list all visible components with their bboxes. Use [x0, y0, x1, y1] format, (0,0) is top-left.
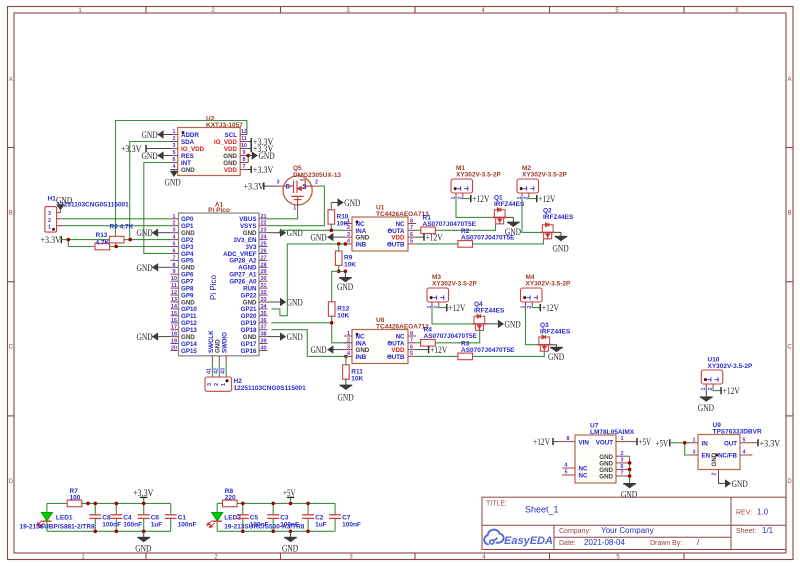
svg-text:A: A [9, 77, 13, 83]
connector M2 XY302V-3.5-2P [517, 165, 568, 200]
svg-text:GP22: GP22 [241, 292, 257, 299]
Pi Pico pin numbers [171, 214, 267, 352]
svg-text:5: 5 [173, 150, 176, 156]
svg-text:Your Company: Your Company [601, 526, 654, 535]
svg-text:GND: GND [344, 199, 360, 209]
svg-text:GND: GND [56, 197, 72, 207]
wire M4.1 to Q3 drain [526, 306, 538, 345]
svg-text:+3.3V: +3.3V [253, 166, 274, 176]
GND below U7 [623, 484, 636, 489]
GND flag at H1 pin3 [56, 197, 72, 213]
svg-text:B: B [9, 211, 13, 217]
svg-text:R9: R9 [344, 255, 353, 262]
svg-text:4.7K: 4.7K [96, 239, 110, 246]
svg-text:GND: GND [287, 299, 303, 309]
svg-text:22: 22 [261, 221, 267, 227]
H2 SWD header [205, 377, 306, 392]
svg-text:4: 4 [347, 239, 350, 245]
svg-text:GND: GND [505, 320, 521, 330]
svg-text:+12V: +12V [426, 234, 443, 244]
+3.3V flag at U2 VDD right [247, 145, 273, 155]
+12V flag at M4.2 [532, 304, 559, 314]
svg-text:2: 2 [621, 451, 624, 457]
svg-text:100nF: 100nF [280, 522, 299, 529]
svg-text:6: 6 [621, 464, 624, 470]
svg-text:GP14: GP14 [181, 341, 197, 348]
resistor R10 10K [328, 210, 335, 224]
svg-text:10K: 10K [337, 221, 349, 228]
svg-text:GND: GND [621, 490, 637, 500]
connector U10 XY302V-3.5-2P [701, 357, 753, 391]
capacitor C2 1uF [302, 515, 314, 519]
GND below rail 2 [282, 531, 298, 554]
svg-text:R6 4.7K: R6 4.7K [110, 224, 134, 231]
svg-text:INB: INB [356, 241, 367, 248]
+12V flag at U7 VIN [533, 438, 558, 448]
wire INA GP21 net [280, 229, 344, 231]
svg-text:4: 4 [565, 463, 568, 469]
wire +3.3V to R6/R13 [61, 240, 170, 247]
capacitor C1 100nF [165, 515, 177, 519]
connector M1 XY302V-3.5-2P [451, 165, 502, 200]
svg-text:13: 13 [171, 297, 177, 303]
svg-text:D: D [286, 184, 291, 191]
GND flag at pico pin23 [268, 229, 303, 240]
svg-text:VOUT: VOUT [596, 439, 613, 446]
GND flag at U9 GND pin2 [719, 477, 748, 490]
svg-text:XY302V-3.5-2P: XY302V-3.5-2P [526, 281, 571, 288]
svg-text:GND: GND [137, 333, 153, 343]
svg-text:8: 8 [173, 262, 176, 268]
svg-text:GND: GND [698, 404, 714, 414]
svg-text:GND: GND [553, 244, 569, 254]
svg-text:+12V: +12V [538, 195, 555, 205]
svg-text:GP11: GP11 [181, 313, 197, 320]
svg-text:GP6: GP6 [181, 272, 194, 279]
svg-text:10: 10 [241, 143, 247, 149]
svg-text:GND: GND [223, 153, 237, 160]
transistor Q4 IRFZ44ES [472, 314, 486, 330]
svg-text:+12V: +12V [723, 387, 740, 397]
svg-text:6: 6 [173, 157, 176, 163]
GND symbol at U2 bottom GND pin [165, 170, 181, 189]
GND flag at U2 ADDR [142, 130, 171, 141]
chip A1 Pi Pico [179, 202, 260, 356]
svg-text:+5V: +5V [656, 439, 669, 449]
+12V flag at M1.2 [463, 195, 490, 205]
svg-text:1: 1 [621, 436, 624, 442]
svg-text:100nF: 100nF [102, 522, 121, 529]
svg-text:SWDIO: SWDIO [222, 332, 229, 353]
wire OUTA - R1 - Q1 gate [416, 229, 421, 231]
+3.3V flag at U2 VDD bottom right [247, 166, 273, 176]
svg-text:+3.3V: +3.3V [41, 236, 62, 246]
svg-text:3: 3 [207, 383, 213, 386]
svg-text:7: 7 [243, 164, 246, 170]
svg-text:XY302V-3.5-2P: XY302V-3.5-2P [432, 281, 477, 288]
svg-text:37: 37 [261, 325, 267, 331]
svg-text:C: C [9, 345, 14, 351]
svg-text:100nF: 100nF [342, 522, 361, 529]
svg-text:ADDR: ADDR [181, 132, 199, 139]
wire GP19 to U8 INA [272, 322, 332, 324]
svg-text:2: 2 [214, 383, 220, 386]
svg-text:2021-08-04: 2021-08-04 [584, 538, 625, 547]
svg-text:D: D [787, 479, 792, 485]
GND flag at U1 GND [311, 233, 345, 244]
svg-text:+3.3V: +3.3V [121, 145, 142, 155]
svg-text:GP17: GP17 [241, 341, 257, 348]
wire GP18 to U8 INB [272, 330, 345, 357]
svg-text:5: 5 [173, 242, 176, 248]
svg-text:EN: EN [702, 453, 711, 460]
wire INT to GP4 [144, 163, 171, 254]
svg-text:Pi Pico: Pi Pico [209, 275, 218, 300]
svg-text:+3.3V: +3.3V [133, 489, 154, 499]
svg-text:VDD: VDD [224, 146, 238, 153]
transistor Q1 IRFZ44ES [493, 208, 507, 224]
wire OUTB - R3 - Q3 gate [416, 355, 458, 357]
GND flag above R10 [331, 198, 360, 209]
LED1 [37, 512, 53, 527]
svg-text:5: 5 [410, 239, 413, 245]
svg-text:10K: 10K [337, 313, 349, 320]
regulator U7 LM78L05AIMX [558, 423, 637, 484]
svg-text:32: 32 [261, 290, 267, 296]
svg-text:1: 1 [48, 225, 51, 231]
GND flag at pico pin3 [137, 229, 171, 240]
transistor Q5 DMG2305UX-13 [276, 165, 342, 211]
resistor R7 100 [67, 500, 82, 507]
svg-text:XY302V-3.5-2P: XY302V-3.5-2P [456, 172, 501, 179]
svg-text:2: 2 [173, 136, 176, 142]
junction dots rail 2 [241, 502, 310, 533]
U7 GND join wire [629, 456, 631, 484]
svg-text:+5V: +5V [283, 489, 296, 499]
svg-text:6: 6 [410, 344, 413, 350]
svg-text:2: 2 [315, 180, 318, 186]
svg-text:9: 9 [173, 269, 176, 275]
svg-text:NC: NC [579, 466, 588, 473]
+3.3V flag at U2 IO_VDD right [247, 138, 273, 148]
svg-text:LED1: LED1 [56, 515, 73, 522]
svg-text:TC4426AEOA713: TC4426AEOA713 [376, 211, 429, 218]
GND below rail 1 [135, 531, 151, 554]
resistor R1 AS0707J0470T5E [421, 227, 436, 234]
Pi Pico pin names [181, 216, 257, 355]
resistor R4 AS0707J0470T5E [421, 340, 436, 347]
svg-text:IRFZ44ES: IRFZ44ES [474, 308, 505, 315]
svg-text:+12V: +12V [448, 304, 465, 314]
svg-text:OUTB: OUTB [387, 241, 405, 248]
svg-text:OUT: OUT [724, 441, 737, 448]
svg-text:3: 3 [347, 232, 350, 238]
svg-text:NC: NC [579, 473, 588, 480]
wire bottom rail 2 [217, 530, 335, 532]
svg-text:8: 8 [410, 218, 413, 224]
wire top rail 1 [47, 502, 67, 504]
svg-text:GND: GND [259, 152, 275, 162]
GND flag at pico pin33 [268, 298, 303, 309]
svg-text:GND: GND [732, 480, 748, 490]
svg-text:IO_VDD: IO_VDD [214, 139, 238, 146]
svg-text:IRFZ44ES: IRFZ44ES [540, 329, 571, 336]
svg-text:LM78L05AIMX: LM78L05AIMX [590, 429, 635, 436]
GND at Q2 source [553, 232, 569, 254]
svg-text:+5V: +5V [639, 438, 652, 448]
svg-text:B: B [787, 211, 791, 217]
junction dots rail 1 [86, 502, 145, 533]
svg-text:+12V: +12V [533, 438, 550, 448]
svg-text:GP1: GP1 [181, 223, 194, 230]
svg-text:AS0707J0470T5E: AS0707J0470T5E [424, 333, 478, 340]
wires pico SWD to H2 [212, 356, 226, 364]
svg-text:3: 3 [347, 344, 350, 350]
svg-text:8: 8 [567, 436, 570, 442]
wire bottom rail 1 [47, 530, 171, 532]
Pi Pico pin stubs [171, 219, 268, 351]
svg-text:4: 4 [743, 450, 746, 456]
chip U8 TC4426AEOA713 [344, 317, 429, 363]
svg-text:H1: H1 [48, 196, 57, 203]
capacitor C5 100nF [237, 515, 249, 519]
capacitor C4 100nF [110, 515, 122, 519]
svg-text:3V3: 3V3 [245, 244, 257, 251]
svg-text:EasyEDA: EasyEDA [504, 535, 553, 547]
svg-text:19-213SUBP/S881-2/TR8: 19-213SUBP/S881-2/TR8 [20, 523, 96, 530]
svg-text:VDD: VDD [224, 167, 238, 174]
wire OUTA - R4 - Q4 gate [416, 342, 421, 344]
resistor R3 AS0707J0470T5E [458, 353, 473, 360]
svg-text:30: 30 [261, 276, 267, 282]
svg-text:REV:: REV: [736, 510, 752, 517]
svg-text:2: 2 [48, 218, 51, 224]
svg-text:Sheet_1: Sheet_1 [525, 505, 559, 515]
svg-text:4: 4 [173, 235, 176, 241]
svg-text:GND: GND [338, 393, 354, 403]
GND at Q1 source [505, 217, 521, 238]
svg-text:4: 4 [347, 351, 350, 357]
wire M3.1 to Q4 drain [432, 306, 472, 324]
svg-text:7: 7 [173, 255, 176, 261]
svg-text:3: 3 [277, 180, 280, 186]
svg-text:+12V: +12V [430, 346, 447, 356]
resistor R2 AS0707J0470T5E [458, 241, 473, 248]
wire SCL net to R13 pullup [174, 134, 178, 136]
svg-text:9: 9 [243, 150, 246, 156]
svg-text:SCL: SCL [225, 132, 238, 139]
svg-text:34: 34 [261, 304, 267, 310]
svg-text:GND: GND [137, 264, 153, 274]
+12V flag at M2.2 [529, 195, 556, 205]
svg-text:TPS76333DBVR: TPS76333DBVR [713, 429, 762, 436]
LED2 [207, 512, 223, 527]
svg-text:AS0707J0470T5E: AS0707J0470T5E [461, 347, 515, 354]
wire H1.2 to GP0 [64, 218, 171, 220]
svg-text:6: 6 [173, 249, 176, 255]
svg-text:+12V: +12V [542, 304, 559, 314]
svg-text:3: 3 [173, 143, 176, 149]
svg-text:IRFZ44ES: IRFZ44ES [543, 214, 574, 221]
svg-text:1.0: 1.0 [757, 508, 769, 517]
GND flag at U2 GND pins right [246, 151, 274, 162]
svg-text:GP27_A1: GP27_A1 [229, 272, 257, 279]
svg-text:1uF: 1uF [315, 522, 327, 529]
svg-text:GP16: GP16 [241, 348, 257, 355]
svg-text:GP15: GP15 [181, 348, 197, 355]
svg-text:8: 8 [410, 331, 413, 337]
svg-text:1: 1 [293, 206, 296, 212]
svg-text:43: 43 [220, 368, 226, 374]
svg-text:OUTB: OUTB [387, 354, 405, 361]
svg-text:5: 5 [410, 351, 413, 357]
svg-text:VSYS: VSYS [240, 223, 257, 230]
GND below R11 [340, 385, 353, 390]
svg-text:1: 1 [221, 383, 227, 386]
resistor R9 10K [335, 251, 342, 265]
svg-text:GND: GND [311, 234, 327, 244]
resistor R12 10K [328, 302, 335, 316]
svg-text:A: A [787, 77, 791, 83]
svg-text:GND: GND [337, 283, 353, 293]
svg-text:1uF: 1uF [151, 522, 163, 529]
svg-text:100: 100 [70, 495, 81, 502]
svg-text:36: 36 [261, 318, 267, 324]
svg-text:GND: GND [137, 229, 153, 239]
wire M2.1 to Q2 drain [522, 197, 541, 232]
wire Q5 gate to VBUS [268, 211, 298, 219]
svg-text:XY302V-3.5-2P: XY302V-3.5-2P [708, 363, 753, 370]
svg-text:+12V: +12V [472, 195, 489, 205]
svg-text:TC4426AEOA713: TC4426AEOA713 [376, 324, 429, 331]
wire +5V to IN and EN [670, 443, 690, 455]
svg-text:12: 12 [171, 290, 177, 296]
svg-text:10K: 10K [344, 262, 356, 269]
svg-text:23: 23 [261, 228, 267, 234]
chip U2 KXTJ3-1057 [171, 116, 249, 176]
svg-text:5: 5 [743, 437, 746, 443]
svg-text:GND: GND [287, 333, 303, 343]
svg-text:17: 17 [171, 325, 177, 331]
+5V flag at U7 VOUT [637, 438, 651, 448]
GND flag at pico pin8 [137, 263, 171, 274]
wire top rail 2 [217, 502, 222, 504]
svg-text:GND: GND [165, 179, 181, 189]
svg-text:8: 8 [243, 157, 246, 163]
svg-text:16: 16 [171, 318, 177, 324]
svg-text:15: 15 [171, 311, 177, 317]
svg-text:33: 33 [261, 297, 267, 303]
wire SDA net to R6 pullup [130, 142, 171, 240]
svg-text:20: 20 [171, 346, 177, 352]
svg-text:IN: IN [702, 441, 709, 448]
GND below U10.1 [698, 388, 714, 414]
svg-text:S: S [302, 184, 306, 191]
svg-text:220: 220 [225, 495, 236, 502]
connector M4 XY302V-3.5-2P [520, 274, 571, 309]
svg-text:39: 39 [261, 339, 267, 345]
svg-text:18: 18 [171, 332, 177, 338]
svg-text:R12: R12 [337, 306, 349, 313]
svg-text:TITLE:: TITLE: [486, 501, 507, 508]
svg-text:Company:: Company: [559, 528, 591, 535]
wire OUTB - R2 - Q2 gate [416, 243, 458, 245]
svg-text:3: 3 [621, 458, 624, 464]
svg-text:GP9: GP9 [181, 292, 194, 299]
transistor Q3 IRFZ44ES [537, 335, 551, 351]
svg-text:27: 27 [261, 255, 267, 261]
svg-text:7: 7 [410, 225, 413, 231]
svg-text:40: 40 [261, 346, 267, 352]
svg-text:GND: GND [135, 545, 151, 555]
svg-text:12251103CNG0S115001: 12251103CNG0S115001 [234, 385, 307, 392]
svg-text:GND: GND [181, 167, 195, 174]
svg-text:SDA: SDA [181, 139, 195, 146]
svg-text:24: 24 [261, 235, 267, 241]
svg-text:KXTJ3-1057: KXTJ3-1057 [206, 122, 243, 129]
+5V flag rail 2 [283, 489, 296, 499]
+12V flag at M3.2 [439, 304, 466, 314]
svg-text:GP20: GP20 [241, 313, 257, 320]
wire left leg 2 [216, 503, 218, 512]
+3.3V flag at U2 IO_VDD [121, 145, 171, 155]
svg-text:100nF: 100nF [250, 522, 269, 529]
wire GND node to R12 [332, 271, 339, 302]
+3.3V flag at U9 OUT [758, 439, 780, 449]
svg-text:R10: R10 [337, 214, 349, 221]
svg-text:2: 2 [712, 473, 718, 476]
EasyEDA logo [484, 530, 503, 545]
GND flag at U8 GND [311, 345, 345, 356]
GND flag at U2 RES [142, 151, 171, 162]
svg-text:GND: GND [311, 346, 327, 356]
svg-text:26: 26 [261, 249, 267, 255]
svg-text:+3.3V: +3.3V [760, 439, 781, 449]
resistor R6 4.7K [109, 236, 124, 243]
wire Q5 source to VSYS [268, 186, 325, 226]
svg-text:1: 1 [173, 214, 176, 220]
svg-text:AS0707J0470T5E: AS0707J0470T5E [461, 234, 515, 241]
svg-text:1: 1 [693, 437, 696, 443]
svg-text:38: 38 [261, 332, 267, 338]
svg-text:5: 5 [565, 470, 568, 476]
svg-text:11: 11 [171, 283, 177, 289]
svg-text:Sheet:: Sheet: [736, 528, 756, 535]
svg-text:11: 11 [241, 136, 247, 142]
svg-text:GND: GND [142, 152, 158, 162]
resistor R13 4.7K [95, 243, 110, 250]
chip U1 TC4426AEOA713 [344, 205, 429, 251]
svg-text:R11: R11 [351, 369, 363, 376]
svg-text:35: 35 [261, 311, 267, 317]
capacitor C3 100nF [267, 515, 279, 519]
svg-text:1/1: 1/1 [762, 526, 774, 535]
cap stems 2 [242, 503, 244, 514]
+12V flag at U1 VDD [416, 234, 443, 244]
junction dots pullup net [67, 238, 71, 242]
svg-text:Drawn By:: Drawn By: [650, 540, 682, 547]
+5V flag at U9 IN [656, 439, 670, 449]
svg-text:42: 42 [213, 368, 219, 374]
connector H1 [45, 196, 129, 232]
wire left leg 1 [46, 503, 48, 512]
svg-text:7: 7 [621, 471, 624, 477]
svg-text:NC/FB: NC/FB [718, 453, 737, 460]
GND node below R9 [339, 270, 346, 272]
svg-text:29: 29 [261, 269, 267, 275]
GND flag at pico pin18 [137, 332, 171, 343]
svg-text:GND: GND [711, 452, 718, 466]
